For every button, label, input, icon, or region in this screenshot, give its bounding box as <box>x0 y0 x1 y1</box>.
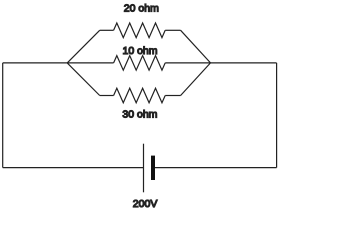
wire: bottom branch left diagonal <box>67 63 100 96</box>
wire: top branch left diagonal <box>67 30 100 63</box>
wire: middle horizontal from node B to loop right edge <box>211 62 277 64</box>
wire: middle horizontal from loop left edge to node A <box>3 62 68 64</box>
svg-text:20 ohm: 20 ohm <box>124 3 159 15</box>
wire: bottom branch right lead <box>165 95 180 97</box>
wire: top branch left lead <box>100 29 114 31</box>
svg-text:10 ohm: 10 ohm <box>123 45 158 57</box>
resistor R2 10 ohm <box>114 56 166 71</box>
wire: top branch right lead <box>165 29 180 31</box>
wire: right vertical side of loop <box>276 63 278 168</box>
wire: middle branch left lead <box>67 62 113 64</box>
wire: middle branch right lead to node B <box>165 62 210 64</box>
wire: bottom left horizontal to battery <box>3 167 144 169</box>
wire: bottom branch right diagonal <box>181 63 211 96</box>
wire: left vertical side of loop <box>2 63 4 168</box>
wire: bottom right horizontal from battery <box>153 167 277 169</box>
wire: top branch right diagonal <box>181 30 211 63</box>
svg-text:200V: 200V <box>133 198 158 210</box>
battery B1 short thick plate (negative terminal) <box>151 156 155 180</box>
resistor R3 30 ohm <box>114 88 166 103</box>
resistor R1 20 ohm <box>114 23 166 38</box>
battery B1 long plate (positive terminal) <box>143 144 145 193</box>
wire: bottom branch left lead <box>100 95 114 97</box>
svg-text:30 ohm: 30 ohm <box>122 109 157 121</box>
